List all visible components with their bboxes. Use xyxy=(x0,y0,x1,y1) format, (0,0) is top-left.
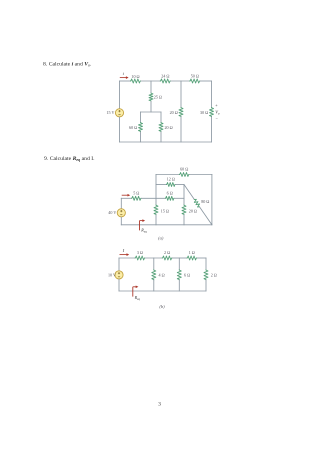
label 40 V xyxy=(108,210,116,215)
label Req b xyxy=(134,295,141,301)
wire node J2 down xyxy=(180,81,182,107)
Req arrow a xyxy=(140,219,146,230)
resistor 5ohm xyxy=(131,196,142,200)
Req arrow b xyxy=(133,285,139,296)
label minus sign Vo xyxy=(216,116,219,121)
label 60 ohm xyxy=(129,125,137,130)
resistor 15ohm xyxy=(154,205,158,216)
label Vo xyxy=(215,110,220,116)
label 24 ohm xyxy=(161,74,169,79)
wire a left rail upper xyxy=(120,198,122,208)
svg-text:9. Calculate Req and I.: 9. Calculate Req and I. xyxy=(44,156,95,162)
voltage source 15V xyxy=(115,109,123,117)
svg-text:10 V: 10 V xyxy=(108,272,116,277)
wire b column 2 upper xyxy=(178,258,180,269)
label 20 ohm a xyxy=(189,208,197,213)
svg-text:5 Ω: 5 Ω xyxy=(133,191,139,196)
label 10 ohm xyxy=(131,74,139,79)
label 25 ohm xyxy=(154,95,162,100)
resistor 25ohm xyxy=(149,93,153,102)
wire a main row right xyxy=(174,197,184,199)
svg-text:(a): (a) xyxy=(158,235,164,240)
label 2 ohm top xyxy=(164,250,170,255)
wire top-left segment xyxy=(120,80,131,82)
wire left rail lower xyxy=(119,117,121,142)
wire b top left xyxy=(119,257,135,259)
svg-text:2 Ω: 2 Ω xyxy=(211,273,217,278)
label 15 V xyxy=(107,110,115,115)
wire a column M lower xyxy=(155,215,157,225)
svg-text:8. Calculate i and Vo.: 8. Calculate i and Vo. xyxy=(43,61,92,67)
label plus sign Vo xyxy=(215,102,218,107)
wire a main row middle xyxy=(142,197,165,199)
wire right rail lower xyxy=(211,117,213,142)
wire b column 1 upper xyxy=(153,258,155,269)
resistor 50ohm xyxy=(189,79,200,83)
label 30 ohm xyxy=(200,110,208,115)
svg-text:50 Ω: 50 Ω xyxy=(191,74,199,79)
svg-text:3 Ω: 3 Ω xyxy=(137,250,143,255)
resistor 2ohm top xyxy=(162,256,173,260)
wire 20ohm inner to bottom xyxy=(160,132,162,142)
label (a) xyxy=(158,235,164,240)
wire b right rail upper xyxy=(205,258,207,269)
svg-text:4 Ω: 4 Ω xyxy=(159,273,165,278)
label Req a xyxy=(140,228,147,234)
wire a main row left xyxy=(121,197,131,199)
wire right rail upper xyxy=(211,81,213,107)
resistor 80ohm diagonal xyxy=(194,199,200,207)
wire top between 10ohm and 24ohm xyxy=(141,80,160,82)
resistor 10ohm xyxy=(130,79,141,83)
wire top-right segment xyxy=(200,80,211,82)
voltage source 10V xyxy=(115,271,123,279)
wire mid bar left down xyxy=(140,112,142,122)
svg-text:2 Ω: 2 Ω xyxy=(164,250,170,255)
svg-text:60 Ω: 60 Ω xyxy=(129,125,137,130)
svg-text:20 Ω: 20 Ω xyxy=(189,208,197,213)
resistor 20ohm at J2 xyxy=(179,107,183,117)
svg-text:6 Ω: 6 Ω xyxy=(167,191,173,196)
label 20 ohm inner xyxy=(165,125,173,130)
label 12 ohm xyxy=(167,177,175,182)
resistor 60ohm xyxy=(139,122,143,132)
resistor 20ohm inner xyxy=(159,122,163,132)
label i xyxy=(123,71,125,76)
heading problem 9 xyxy=(44,156,95,162)
resistor 12ohm xyxy=(166,183,176,187)
wire b column 2 lower xyxy=(178,280,180,291)
resistor 24ohm xyxy=(160,79,171,83)
wire b left rail upper xyxy=(118,258,120,271)
svg-text:30 Ω: 30 Ω xyxy=(200,110,208,115)
svg-text:12 Ω: 12 Ω xyxy=(167,177,175,182)
wire node J1 down xyxy=(150,81,152,93)
resistor 4ohm xyxy=(152,269,156,280)
wire a left rail lower xyxy=(120,217,122,225)
current arrow i xyxy=(120,76,129,79)
label 60 ohm a xyxy=(180,167,188,172)
label 15 ohm xyxy=(161,208,169,213)
svg-text:15 V: 15 V xyxy=(107,110,115,115)
resistor 3ohm xyxy=(135,256,146,260)
svg-text:3: 3 xyxy=(158,402,161,408)
svg-text:80 Ω: 80 Ω xyxy=(201,199,209,204)
resistor 20ohm a xyxy=(182,205,186,216)
heading problem 8 xyxy=(43,61,92,67)
resistor 1ohm xyxy=(187,256,198,260)
wire J2 resistor to bottom xyxy=(180,117,182,142)
wire a diagonal upper xyxy=(184,185,194,200)
wire left rail upper xyxy=(119,81,121,109)
label 6 ohm xyxy=(184,273,190,278)
wire b left rail lower xyxy=(118,279,120,291)
svg-text:15 Ω: 15 Ω xyxy=(161,208,169,213)
wire a 12ohm row right xyxy=(176,184,185,186)
label 1 ohm xyxy=(189,250,195,255)
resistor 6ohm xyxy=(165,196,175,200)
label 4 ohm xyxy=(159,273,165,278)
svg-text:1 Ω: 1 Ω xyxy=(189,250,195,255)
wire mid bar right down xyxy=(160,112,162,122)
label 6 ohm xyxy=(167,191,173,196)
wire top between 24ohm and 50ohm xyxy=(171,80,190,82)
svg-text:(b): (b) xyxy=(159,304,165,309)
wire b column 1 lower xyxy=(153,280,155,291)
page number 3 xyxy=(158,402,161,408)
label 80 ohm xyxy=(201,199,209,204)
wire b top seg3 xyxy=(172,257,186,259)
svg-text:40 V: 40 V xyxy=(108,210,116,215)
resistor 60ohm a xyxy=(179,173,190,177)
wire b bottom rail xyxy=(119,290,206,292)
resistor 6ohm xyxy=(177,269,181,280)
current arrow in a xyxy=(122,194,131,197)
label 20 ohm at J2 xyxy=(170,110,178,115)
wire a diagonal lower xyxy=(200,207,212,225)
svg-text:20 Ω: 20 Ω xyxy=(170,110,178,115)
wire a bottom rail xyxy=(121,224,212,226)
wire a top rail left xyxy=(156,174,179,176)
resistor 2ohm right xyxy=(204,269,208,280)
current arrow I in b xyxy=(120,253,130,256)
resistor 30ohm xyxy=(210,107,214,117)
wire a right rail xyxy=(211,175,213,225)
label 3 ohm xyxy=(137,250,143,255)
label 10 V xyxy=(108,272,116,277)
svg-text:6 Ω: 6 Ω xyxy=(184,273,190,278)
svg-text:24 Ω: 24 Ω xyxy=(161,74,169,79)
label 2 ohm right xyxy=(211,273,217,278)
wire a 12ohm row left xyxy=(156,184,166,186)
svg-text:25 Ω: 25 Ω xyxy=(154,95,162,100)
wire a column M xyxy=(155,175,157,205)
wire a column N lower xyxy=(183,215,185,225)
label 5 ohm xyxy=(133,191,139,196)
label 50 ohm xyxy=(191,74,199,79)
wire 25ohm to mid bar xyxy=(150,102,152,113)
wire b top right xyxy=(197,257,206,259)
wire bottom rail xyxy=(120,141,212,143)
label (b) xyxy=(159,304,165,309)
svg-text:20 Ω: 20 Ω xyxy=(165,125,173,130)
wire b top seg2 xyxy=(145,257,162,259)
wire b right rail lower xyxy=(205,280,207,291)
voltage source 40V xyxy=(117,209,125,217)
wire 60ohm to bottom xyxy=(140,132,142,142)
label I in b xyxy=(122,248,125,253)
svg-text:60 Ω: 60 Ω xyxy=(180,167,188,172)
wire a column N upper xyxy=(183,185,185,205)
wire a top rail right xyxy=(190,174,212,176)
wire mid bar xyxy=(141,111,162,113)
svg-text:10 Ω: 10 Ω xyxy=(131,74,139,79)
